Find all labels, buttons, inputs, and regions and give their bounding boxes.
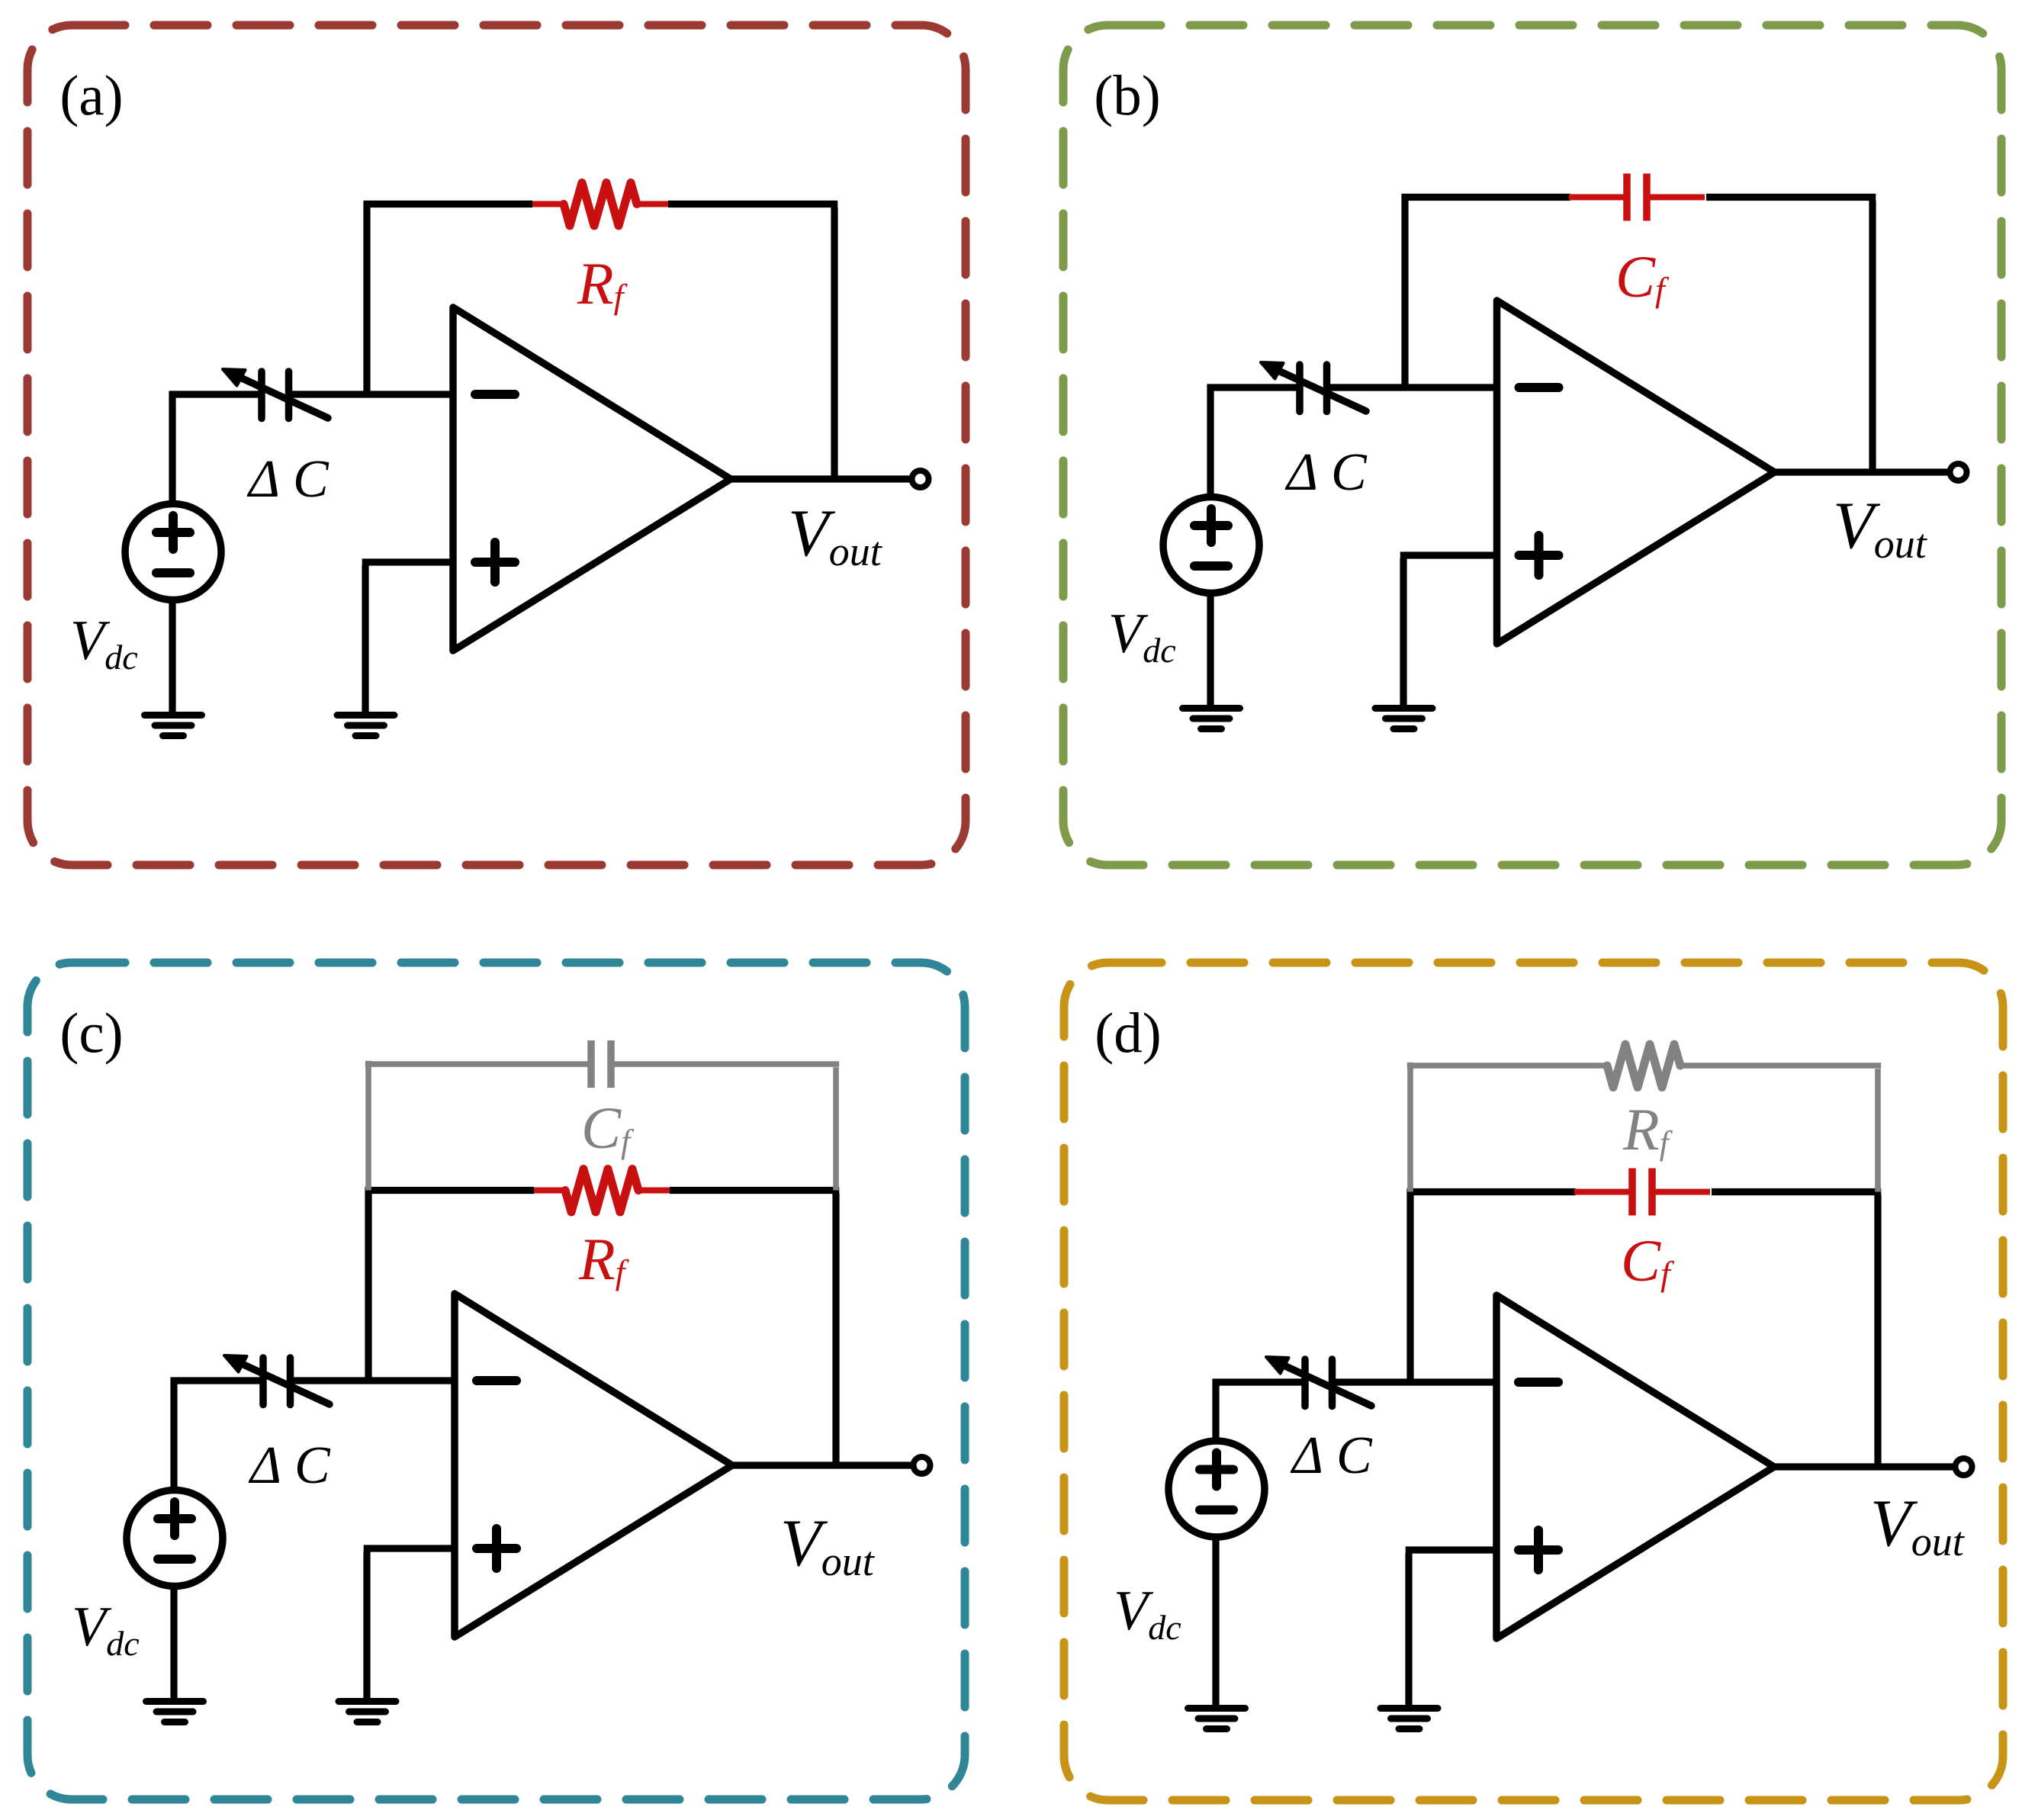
- resistor Rf (panel a): [532, 183, 668, 227]
- ground noninverting (panel b): [1375, 709, 1432, 729]
- ground Vdc (panel c): [146, 1702, 204, 1722]
- wire feedback top-right (panel a): [668, 201, 837, 207]
- wire gray branch right vertical (panel c): [833, 1067, 839, 1190]
- label ΔC (panel d): [1290, 1426, 1373, 1485]
- svg-text:(a): (a): [59, 65, 123, 128]
- ground Vdc (panel b): [1183, 709, 1240, 729]
- wire noninverting input (panel c): [364, 1548, 458, 1702]
- label Vout (panel c): [780, 1506, 876, 1584]
- voltage source Vdc (panel a): [125, 504, 221, 600]
- label Rf (panel a): [577, 250, 628, 317]
- wire Vdc top to input node (panel d): [1213, 1379, 1302, 1441]
- wire feedback top-left (panel d): [1407, 1188, 1576, 1195]
- panel label (b): [1094, 65, 1160, 128]
- svg-text:Δ: Δ: [1284, 443, 1318, 502]
- svg-text:C: C: [1336, 1426, 1373, 1485]
- resistor Rf gray (panel d): [1607, 1044, 1680, 1088]
- wire output (panel a): [728, 475, 909, 482]
- label Vdc (panel d): [1114, 1580, 1181, 1647]
- variable capacitor ΔC (panel a): [223, 369, 328, 419]
- wire feedback top-right (panel d): [1712, 1188, 1881, 1195]
- voltage source Vdc (panel c): [127, 1490, 223, 1587]
- op-amp U1 (panel d): [1496, 1295, 1774, 1638]
- label Vout (panel a): [788, 497, 883, 574]
- wire gray branch top-left (panel c): [365, 1061, 588, 1067]
- variable capacitor ΔC (panel c): [224, 1355, 329, 1405]
- resistor Rf (panel c): [534, 1169, 670, 1213]
- variable capacitor ΔC (panel d): [1266, 1357, 1371, 1407]
- ground Vdc (panel a): [145, 715, 202, 736]
- label Vdc (panel b): [1108, 603, 1176, 670]
- wire feedback right vertical (panel d): [1874, 1195, 1881, 1464]
- wire noninverting input (panel a): [362, 562, 456, 715]
- wire feedback top-left (panel b): [1402, 194, 1570, 201]
- label Rf (panel c): [578, 1226, 630, 1292]
- label ΔC (panel c): [248, 1436, 331, 1495]
- panel label (a): [59, 65, 123, 128]
- voltage source Vdc (panel b): [1163, 497, 1259, 593]
- output terminal (panel c): [914, 1457, 931, 1474]
- svg-text:C: C: [294, 1436, 331, 1495]
- wire Vdc to ground (panel b): [1207, 593, 1214, 709]
- label ΔC (panel b): [1284, 443, 1368, 502]
- svg-text:Δ: Δ: [246, 450, 280, 509]
- svg-text:C: C: [1331, 443, 1368, 502]
- svg-text:C: C: [293, 450, 329, 509]
- wire feedback top-right (panel c): [670, 1187, 839, 1194]
- svg-text:(d): (d): [1095, 1002, 1161, 1066]
- wire feedback right vertical (panel b): [1869, 201, 1876, 469]
- wire feedback top-left (panel c): [365, 1187, 534, 1194]
- wire feedback right vertical (panel c): [832, 1194, 839, 1462]
- svg-text:(c): (c): [59, 1002, 123, 1066]
- voltage source Vdc (panel d): [1169, 1441, 1265, 1537]
- ground noninverting (panel d): [1381, 1709, 1438, 1729]
- output terminal (panel b): [1950, 464, 1967, 481]
- wire Vdc to ground (panel d): [1212, 1537, 1219, 1709]
- svg-text:Δ: Δ: [1290, 1426, 1323, 1485]
- label Cf (panel b): [1615, 243, 1670, 310]
- wire Vdc to ground (panel c): [170, 1587, 177, 1702]
- wire gray branch top-left (panel d): [1407, 1063, 1607, 1069]
- output terminal (panel d): [1956, 1458, 1972, 1475]
- label Vout (panel d): [1870, 1487, 1966, 1564]
- panel label (d): [1095, 1002, 1161, 1066]
- label Rf gray (panel d): [1622, 1096, 1673, 1162]
- wire Vdc to ground (panel a): [169, 600, 175, 715]
- op-amp U1 (panel b): [1497, 301, 1775, 644]
- wire gray branch right vertical (panel d): [1875, 1069, 1881, 1191]
- label Vout (panel b): [1833, 489, 1928, 567]
- capacitor Cf (panel b): [1569, 174, 1705, 221]
- ground Vdc (panel d): [1188, 1709, 1246, 1729]
- wire gray branch left vertical (panel d): [1407, 1063, 1413, 1192]
- label Vdc (panel a): [70, 609, 138, 677]
- svg-text:Δ: Δ: [248, 1436, 281, 1495]
- variable capacitor ΔC (panel b): [1261, 362, 1366, 412]
- wire output (panel d): [1771, 1463, 1953, 1470]
- output terminal (panel a): [912, 471, 929, 487]
- wire feedback left vertical (panel a): [363, 201, 370, 397]
- op-amp U1 (panel a): [453, 307, 731, 651]
- wire feedback right vertical (panel a): [831, 207, 837, 476]
- ground noninverting (panel c): [339, 1702, 396, 1722]
- label ΔC (panel a): [246, 450, 329, 509]
- wire Vdc top to input node (panel b): [1207, 384, 1297, 497]
- wire ΔC to inverting input (panel a): [292, 391, 456, 397]
- capacitor Cf gray (panel c): [591, 1040, 611, 1088]
- wire ΔC to inverting input (panel d): [1336, 1378, 1500, 1385]
- label Cf gray (panel c): [581, 1095, 635, 1161]
- wire gray branch left vertical (panel c): [365, 1061, 371, 1191]
- wire noninverting input (panel b): [1400, 555, 1500, 709]
- wire gray branch top-right (panel d): [1679, 1063, 1881, 1069]
- svg-text:(b): (b): [1094, 65, 1160, 128]
- wire feedback left vertical (panel d): [1406, 1188, 1413, 1385]
- label Vdc (panel c): [72, 1596, 140, 1663]
- wire ΔC to inverting input (panel b): [1330, 384, 1500, 391]
- wire Vdc top to input node (panel c): [171, 1378, 260, 1490]
- ground noninverting (panel a): [337, 715, 394, 736]
- wire Vdc top to input node (panel a): [169, 391, 259, 504]
- wire feedback left vertical (panel b): [1401, 194, 1408, 391]
- wire feedback left vertical (panel c): [365, 1187, 371, 1384]
- wire output (panel c): [729, 1461, 911, 1468]
- capacitor Cf (panel d): [1574, 1169, 1710, 1216]
- wire noninverting input (panel d): [1406, 1550, 1500, 1709]
- wire output (panel b): [1772, 468, 1948, 475]
- wire ΔC to inverting input (panel c): [294, 1377, 458, 1384]
- panel label (c): [59, 1002, 123, 1066]
- op-amp U1 (panel c): [455, 1294, 732, 1637]
- wire feedback top-right (panel b): [1706, 194, 1876, 201]
- wire feedback top-left (panel a): [364, 201, 532, 207]
- wire gray branch top-right (panel c): [614, 1061, 839, 1067]
- label Cf (panel d): [1621, 1227, 1675, 1294]
